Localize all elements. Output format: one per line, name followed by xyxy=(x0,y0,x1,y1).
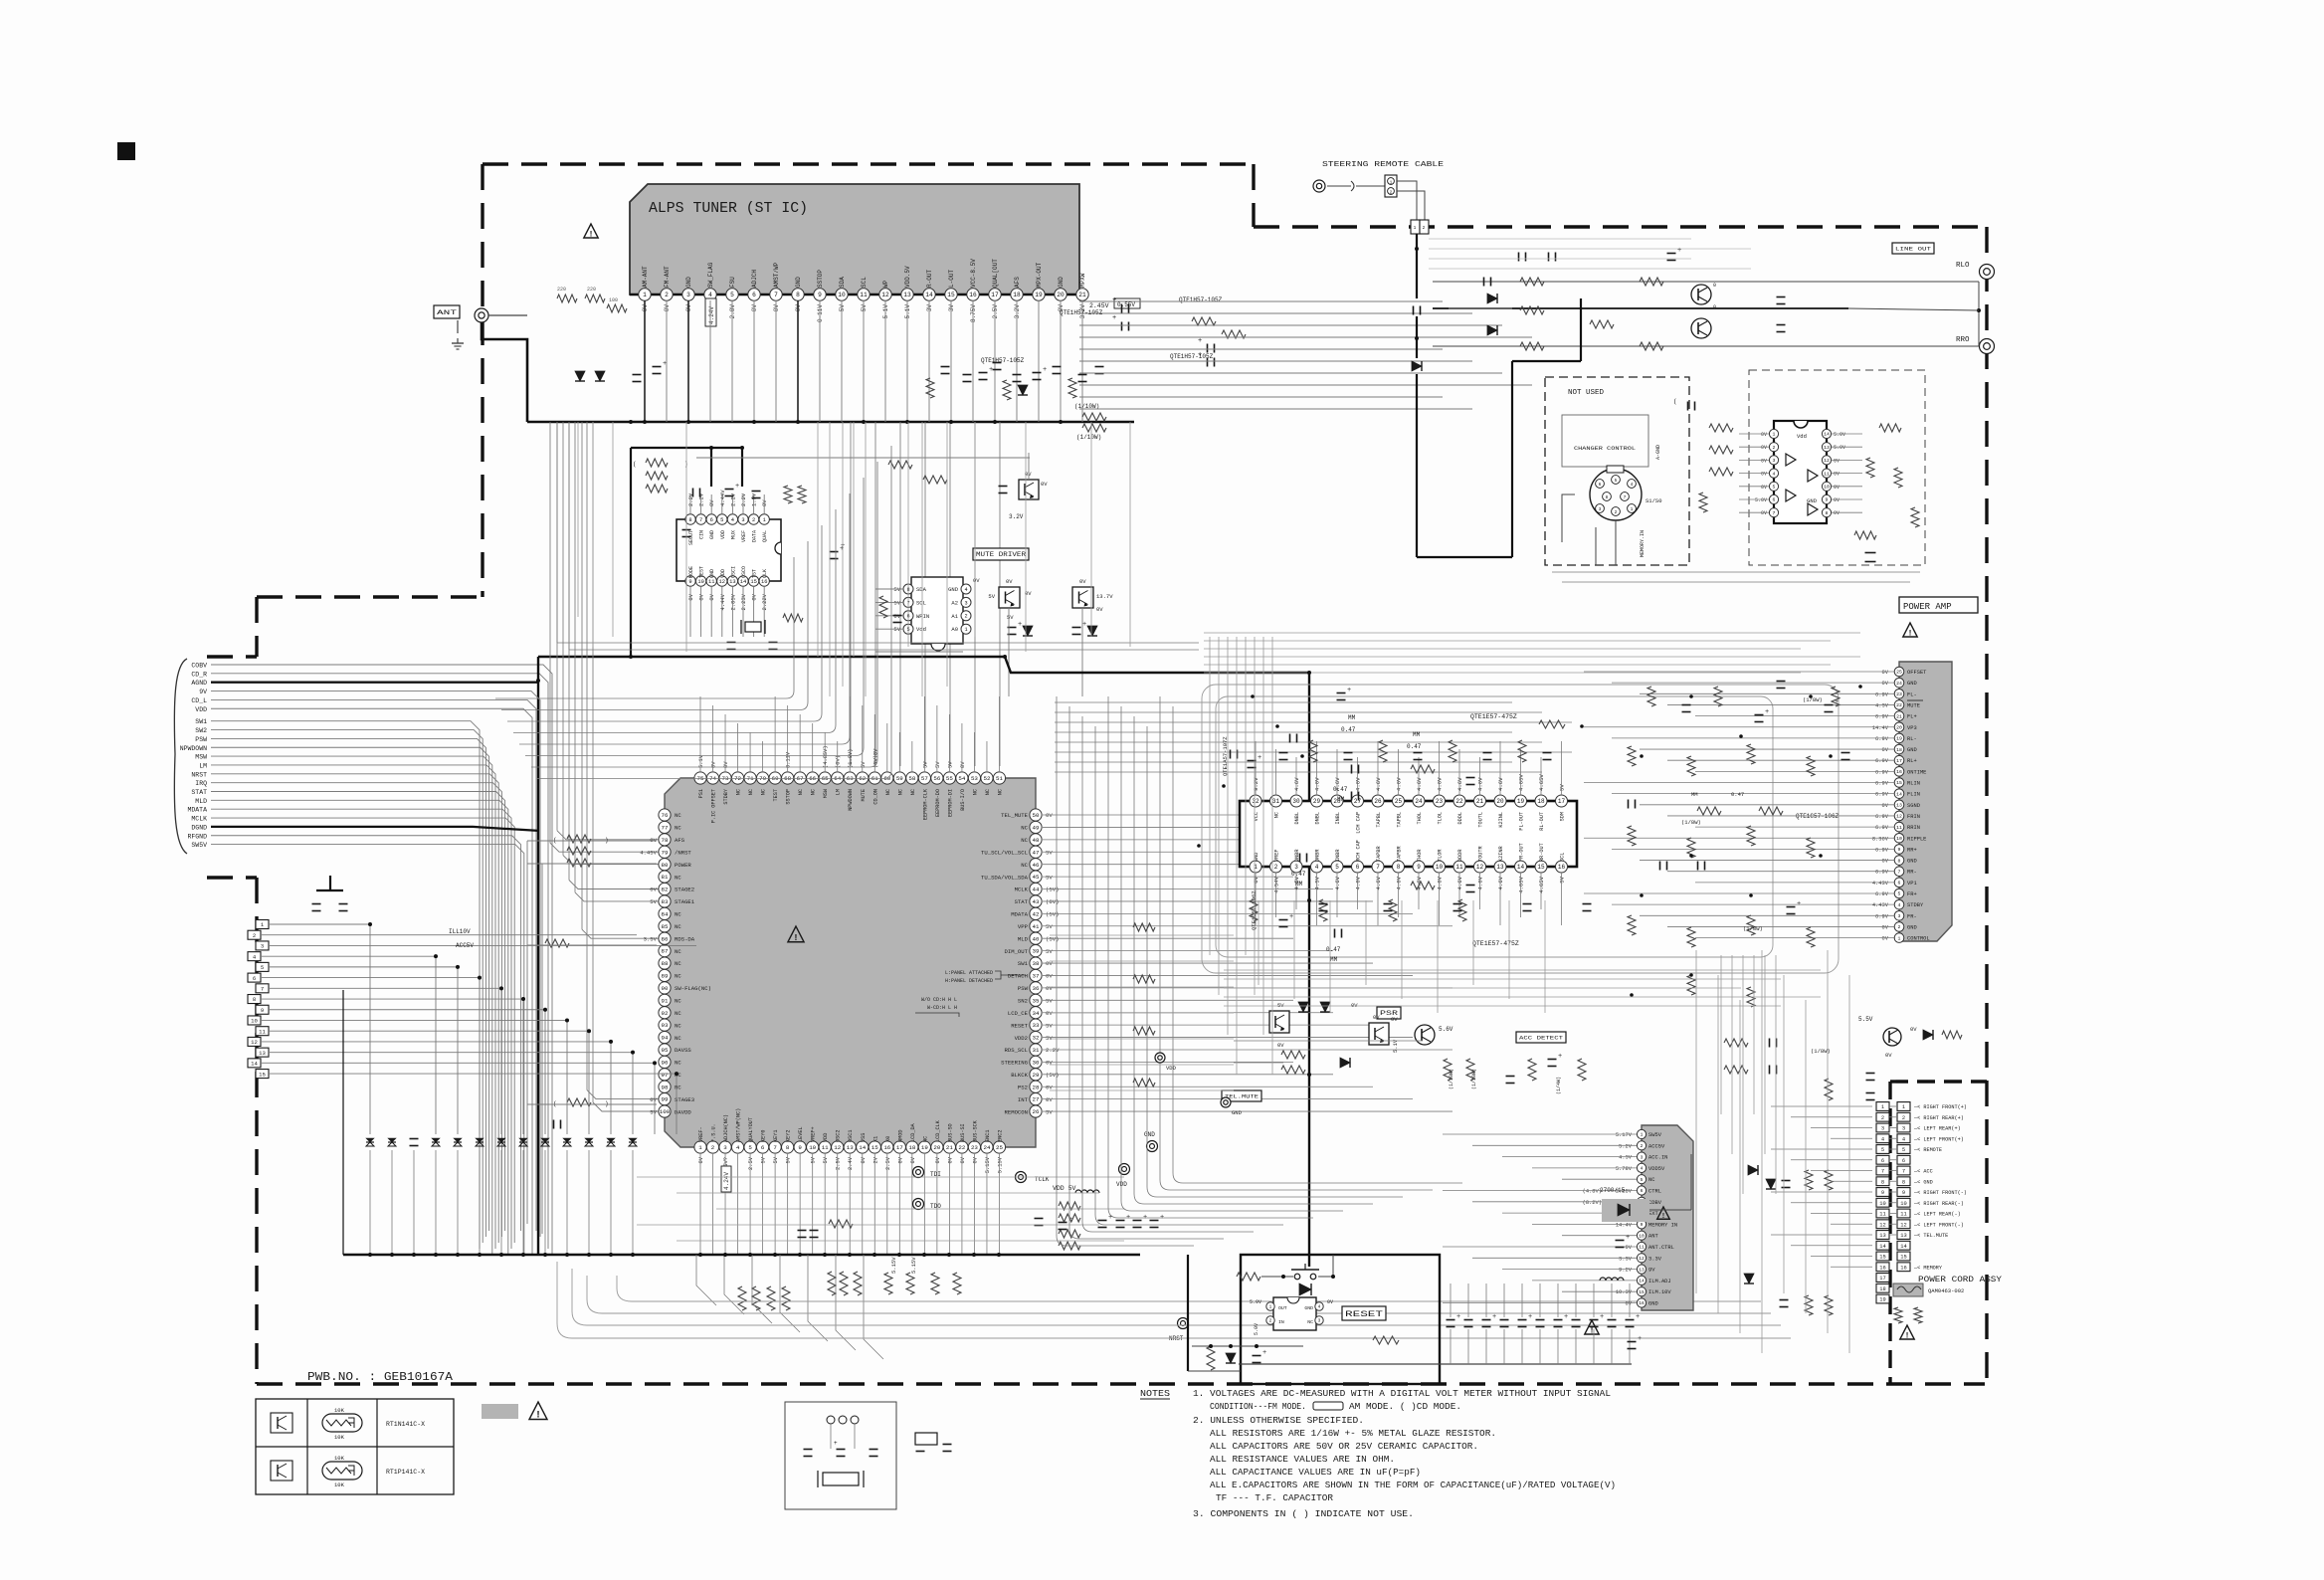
svg-text:23: 23 xyxy=(971,1144,978,1151)
svg-text:K2INL: K2INL xyxy=(1498,812,1504,828)
svg-text:0V: 0V xyxy=(1834,485,1840,491)
svg-text:NC: NC xyxy=(736,789,742,795)
svg-text:2: 2 xyxy=(1423,225,1426,231)
svg-text:RFGND: RFGND xyxy=(187,833,207,840)
svg-text:GND: GND xyxy=(1907,859,1917,865)
svg-text:6: 6 xyxy=(1773,497,1776,503)
svg-text:(8.2V): (8.2V) xyxy=(1583,1200,1602,1206)
svg-text:6: 6 xyxy=(1641,1188,1644,1194)
svg-text:5V: 5V xyxy=(650,898,657,905)
svg-text:5.1V: 5.1V xyxy=(904,304,911,319)
svg-text:13: 13 xyxy=(1900,1233,1906,1239)
svg-text:5V: 5V xyxy=(1046,948,1053,955)
svg-text:QUAL: QUAL xyxy=(762,530,768,542)
svg-text:4.3V: 4.3V xyxy=(1619,1155,1633,1161)
svg-text:NC: NC xyxy=(675,1084,681,1090)
svg-text:TEST: TEST xyxy=(699,566,705,578)
svg-text:+: + xyxy=(1456,1313,1460,1321)
svg-text:14.4V: 14.4V xyxy=(1616,1222,1633,1228)
svg-text:3. COMPONENTS IN ( ) INDICAT: 3. COMPONENTS IN ( ) INDICATE NOT USE. xyxy=(1193,1508,1414,1519)
svg-text:6.9V: 6.9V xyxy=(1875,758,1889,764)
svg-text:5: 5 xyxy=(1335,864,1339,871)
svg-text:SDM: SDM xyxy=(1560,812,1566,821)
svg-text:FSU: FSU xyxy=(729,277,736,288)
svg-text:VDD: VDD xyxy=(720,530,726,539)
svg-text:17: 17 xyxy=(991,292,999,298)
svg-text:VSS: VSS xyxy=(861,1133,867,1142)
svg-text:5V: 5V xyxy=(861,304,868,312)
svg-text:2: 2 xyxy=(1881,1115,1884,1121)
svg-text:2.23V: 2.23V xyxy=(740,593,747,610)
svg-text:(4.85V): (4.85V) xyxy=(823,745,829,768)
svg-text:4: 4 xyxy=(1902,1136,1905,1142)
svg-text:GND: GND xyxy=(709,569,715,578)
svg-text:2: 2 xyxy=(665,292,669,298)
svg-text:25: 25 xyxy=(1896,670,1902,676)
svg-text:15: 15 xyxy=(1896,780,1902,786)
svg-text:5.0V: 5.0V xyxy=(1755,497,1767,503)
svg-text:TAPBL: TAPBL xyxy=(1376,812,1382,828)
svg-text:S1/S0: S1/S0 xyxy=(1646,497,1662,504)
svg-text:10: 10 xyxy=(838,292,846,298)
svg-text:1: 1 xyxy=(1641,1132,1644,1138)
svg-text:+: + xyxy=(1043,366,1047,374)
svg-text:5V: 5V xyxy=(811,1156,817,1163)
svg-text:31: 31 xyxy=(1033,1047,1040,1054)
svg-text:QTE1H57-105Z: QTE1H57-105Z xyxy=(1060,309,1103,316)
svg-text:NC: NC xyxy=(1021,837,1028,844)
svg-text:KEY0: KEY0 xyxy=(761,1130,767,1142)
svg-text:77: 77 xyxy=(662,825,669,832)
svg-text:9: 9 xyxy=(688,579,691,585)
svg-text:CD_L: CD_L xyxy=(191,697,207,704)
svg-text:NC: NC xyxy=(997,789,1003,795)
svg-text:0V: 0V xyxy=(960,761,966,768)
svg-text:22: 22 xyxy=(1455,798,1463,805)
svg-text:A1: A1 xyxy=(951,613,958,620)
svg-text:VCC-8.5V: VCC-8.5V xyxy=(970,259,977,288)
svg-text:A-GND: A-GND xyxy=(1655,445,1661,460)
svg-text:BLKCK: BLKCK xyxy=(1011,1072,1028,1079)
svg-text:2.4V: 2.4V xyxy=(848,1156,854,1170)
svg-text:1: 1 xyxy=(1881,1104,1884,1110)
svg-text:NC: NC xyxy=(675,825,681,832)
svg-text:3: 3 xyxy=(1902,1126,1905,1132)
svg-text:5V: 5V xyxy=(988,593,995,600)
svg-text:NMOD: NMOD xyxy=(897,1130,903,1142)
svg-text:—< LEFT REAR(+): —< LEFT REAR(+) xyxy=(1913,1126,1961,1132)
svg-text:5: 5 xyxy=(720,517,723,523)
svg-text:83: 83 xyxy=(662,898,669,905)
svg-text:4.24V: 4.24V xyxy=(708,306,715,324)
svg-text:0V: 0V xyxy=(1910,1026,1917,1033)
svg-text:14: 14 xyxy=(1639,1279,1645,1284)
svg-text:35: 35 xyxy=(1033,997,1040,1004)
svg-text:/NRST: /NRST xyxy=(675,849,691,856)
svg-text:PSW: PSW xyxy=(195,736,207,743)
svg-text:RL+: RL+ xyxy=(1907,758,1917,764)
svg-text:76: 76 xyxy=(662,812,669,819)
svg-text:STDBY: STDBY xyxy=(1907,902,1924,908)
svg-text:+: + xyxy=(1112,296,1116,304)
svg-text:MM: MM xyxy=(1691,791,1698,798)
svg-text:10K: 10K xyxy=(334,1434,345,1441)
svg-text:+: + xyxy=(1082,621,1086,629)
svg-text:0V: 0V xyxy=(773,304,780,312)
svg-text:4.6V: 4.6V xyxy=(1416,777,1423,791)
svg-text:NRST: NRST xyxy=(1169,1335,1184,1342)
svg-text:INBR: INBR xyxy=(1335,850,1341,862)
svg-text:10K: 10K xyxy=(334,1407,345,1414)
svg-text:MLD: MLD xyxy=(195,798,207,805)
svg-text:SW_FLAG: SW_FLAG xyxy=(707,262,714,288)
svg-text:VDD.5V: VDD.5V xyxy=(904,266,911,288)
svg-text:5: 5 xyxy=(1615,478,1618,484)
svg-text:K2INR: K2INR xyxy=(1498,846,1504,862)
svg-text:2.2V: 2.2V xyxy=(729,493,736,506)
svg-text:4.3V: 4.3V xyxy=(1875,702,1889,708)
svg-text:1: 1 xyxy=(698,1144,702,1151)
svg-text:4.6V: 4.6V xyxy=(1334,876,1341,889)
svg-text:MSW: MSW xyxy=(823,788,829,798)
svg-text:WP: WP xyxy=(882,280,889,288)
svg-text:7: 7 xyxy=(1376,864,1380,871)
svg-text:PS2: PS2 xyxy=(1018,1084,1028,1090)
svg-text:23: 23 xyxy=(1436,798,1444,805)
svg-text:3.3V: 3.3V xyxy=(1619,1256,1633,1262)
svg-text:QTE1H57-105Z: QTE1H57-105Z xyxy=(1179,296,1223,303)
svg-text:TST: TST xyxy=(752,569,758,578)
svg-text:DNBR: DNBR xyxy=(1315,850,1321,862)
svg-text:5.1V: 5.1V xyxy=(698,754,704,768)
svg-text:PWB.NO. : GEB10167A: PWB.NO. : GEB10167A xyxy=(307,1371,453,1384)
svg-text:25: 25 xyxy=(996,1144,1003,1151)
svg-text:0V: 0V xyxy=(1626,1245,1633,1251)
svg-text:THOR: THOR xyxy=(1417,850,1423,862)
svg-text:OSCO: OSCO xyxy=(741,566,747,578)
svg-text:8: 8 xyxy=(253,996,256,1003)
svg-text:10: 10 xyxy=(697,579,703,585)
svg-text:4.44V: 4.44V xyxy=(719,490,726,506)
svg-text:1: 1 xyxy=(643,292,647,298)
svg-text:CLK: CLK xyxy=(762,569,768,578)
svg-text:21: 21 xyxy=(1476,798,1484,805)
svg-text:3: 3 xyxy=(1898,913,1901,919)
svg-text:—< ACC: —< ACC xyxy=(1913,1169,1933,1175)
svg-text:AM MODE. ( )CD MODE.: AM MODE. ( )CD MODE. xyxy=(1349,1401,1461,1412)
svg-text:5V: 5V xyxy=(823,1156,829,1163)
svg-text:8.75V: 8.75V xyxy=(970,304,977,322)
svg-text:11: 11 xyxy=(708,579,714,585)
svg-text:0V: 0V xyxy=(1882,924,1889,930)
svg-text:9: 9 xyxy=(1826,497,1829,503)
svg-text:220: 220 xyxy=(557,287,566,293)
svg-text:5V: 5V xyxy=(1046,849,1053,856)
svg-text:85: 85 xyxy=(662,923,669,930)
svg-text:TF --- T.F. CAPACITOR: TF --- T.F. CAPACITOR xyxy=(1216,1492,1333,1503)
svg-text:5.15V: 5.15V xyxy=(997,1156,1003,1173)
svg-text:ALL RESISTANCE VALUES ARE IN O: ALL RESISTANCE VALUES ARE IN OHM. xyxy=(1210,1454,1395,1465)
svg-text:RLO: RLO xyxy=(1956,262,1970,270)
svg-text:7: 7 xyxy=(773,1144,777,1151)
svg-text:40: 40 xyxy=(1033,935,1040,942)
svg-text:97: 97 xyxy=(662,1072,669,1079)
svg-text:18: 18 xyxy=(908,1144,915,1151)
svg-text:DAVSS: DAVSS xyxy=(675,1047,691,1054)
svg-text:+: + xyxy=(1600,1313,1604,1321)
svg-text:0V: 0V xyxy=(1834,458,1840,464)
svg-text:ACC5V: ACC5V xyxy=(456,942,474,949)
svg-text:ACC.IN: ACC.IN xyxy=(1648,1155,1667,1161)
svg-text:5: 5 xyxy=(261,964,264,971)
svg-text:16: 16 xyxy=(1558,864,1566,871)
svg-text:RESET: RESET xyxy=(1345,1310,1383,1319)
svg-text:X0: X0 xyxy=(885,1136,891,1142)
svg-text:QTE1C57-106Z: QTE1C57-106Z xyxy=(1796,813,1840,820)
svg-text:15: 15 xyxy=(1900,1255,1906,1261)
svg-text:6.9V: 6.9V xyxy=(1875,825,1889,831)
svg-text:9: 9 xyxy=(1898,847,1901,853)
svg-text:11: 11 xyxy=(259,1028,266,1035)
svg-text:NC: NC xyxy=(1274,812,1280,818)
svg-text:0: 0 xyxy=(1713,283,1716,289)
svg-text:LM: LM xyxy=(836,789,842,795)
svg-text:7: 7 xyxy=(1898,869,1901,875)
svg-text:ALPS TUNER (ST IC): ALPS TUNER (ST IC) xyxy=(649,200,808,217)
svg-text:OSCI: OSCI xyxy=(730,566,736,578)
svg-text:—< REMOTE: —< REMOTE xyxy=(1913,1147,1942,1153)
svg-text:3: 3 xyxy=(964,600,967,606)
svg-text:9: 9 xyxy=(1417,864,1421,871)
svg-text:13: 13 xyxy=(1639,1267,1645,1273)
svg-text:9.2V: 9.2V xyxy=(1253,777,1259,791)
svg-text:0V: 0V xyxy=(1046,1084,1053,1090)
svg-text:0V: 0V xyxy=(650,887,657,893)
svg-text:58: 58 xyxy=(908,775,915,782)
svg-text:5.5V: 5.5V xyxy=(1858,1016,1873,1023)
svg-text:ENC1: ENC1 xyxy=(985,1130,991,1142)
svg-text:6.9V: 6.9V xyxy=(1875,781,1889,787)
svg-text:POWER CORD ASSY: POWER CORD ASSY xyxy=(1918,1275,2002,1284)
svg-text:27: 27 xyxy=(1033,1096,1040,1103)
svg-text:RIPPLE: RIPPLE xyxy=(1907,836,1926,842)
svg-text:5V: 5V xyxy=(1046,874,1053,881)
svg-text:46: 46 xyxy=(1033,862,1040,869)
svg-text:SW1: SW1 xyxy=(1018,960,1029,967)
svg-text:FR+: FR+ xyxy=(1907,891,1917,897)
svg-text:6.9V: 6.9V xyxy=(1875,736,1889,742)
svg-text:ALL CAPACITANCE VALUES ARE IN: ALL CAPACITANCE VALUES ARE IN uF(P=pF) xyxy=(1210,1467,1421,1478)
svg-text:7: 7 xyxy=(699,517,702,523)
svg-text:(0V): (0V) xyxy=(836,755,842,768)
svg-text:13: 13 xyxy=(1896,803,1902,809)
svg-text:THOL: THOL xyxy=(1417,812,1423,824)
svg-text:13: 13 xyxy=(1824,445,1830,451)
svg-text:8: 8 xyxy=(796,292,800,298)
svg-text:DNBL: DNBL xyxy=(1315,812,1321,824)
svg-text:TU_SCL/VOL_SCL: TU_SCL/VOL_SCL xyxy=(981,849,1028,856)
svg-text:NPWDOWN: NPWDOWN xyxy=(848,789,854,811)
svg-text:Vdd: Vdd xyxy=(916,626,926,633)
svg-text:(5V): (5V) xyxy=(1046,1072,1059,1079)
svg-text:ALL E.CAPACITORS ARE SHOWN IN: ALL E.CAPACITORS ARE SHOWN IN THE FORM O… xyxy=(1210,1480,1616,1490)
svg-text:16: 16 xyxy=(969,292,977,298)
svg-text:5V: 5V xyxy=(1046,1022,1053,1029)
svg-text:11: 11 xyxy=(1896,825,1902,831)
svg-text:0V: 0V xyxy=(1761,510,1767,516)
svg-text:7: 7 xyxy=(261,986,264,993)
svg-text:+: + xyxy=(1289,913,1293,921)
svg-text:1: 1 xyxy=(1773,432,1776,438)
svg-text:2.5V: 2.5V xyxy=(836,1156,842,1170)
svg-text:2700/15: 2700/15 xyxy=(1600,1187,1626,1194)
svg-text:17: 17 xyxy=(1896,758,1902,764)
svg-text:4.6V: 4.6V xyxy=(1375,777,1382,791)
svg-text:7: 7 xyxy=(1881,1169,1884,1175)
svg-text:0V: 0V xyxy=(751,593,758,600)
svg-text:55: 55 xyxy=(946,775,953,782)
svg-text:MODE: MODE xyxy=(688,566,694,578)
svg-text:GND: GND xyxy=(948,586,959,593)
svg-text:0V: 0V xyxy=(1834,510,1840,516)
svg-text:CD_ON: CD_ON xyxy=(872,789,878,805)
svg-text:2: 2 xyxy=(711,1144,715,1151)
svg-text:NC: NC xyxy=(675,948,681,955)
svg-text:NOTES: NOTES xyxy=(1140,1388,1170,1399)
svg-text:0V: 0V xyxy=(973,577,980,584)
svg-text:MUTE: MUTE xyxy=(1907,702,1920,708)
svg-text:LINE OUT: LINE OUT xyxy=(1895,245,1932,252)
svg-text:OUT: OUT xyxy=(1278,1305,1287,1311)
svg-text:NPWDOWN: NPWDOWN xyxy=(180,745,207,752)
svg-text:26: 26 xyxy=(1374,798,1382,805)
svg-text:20: 20 xyxy=(1496,798,1504,805)
svg-text:ENC2: ENC2 xyxy=(997,1130,1003,1142)
svg-text:9: 9 xyxy=(261,1007,264,1014)
svg-text:NC: NC xyxy=(675,960,681,967)
svg-text:0: 0 xyxy=(1713,304,1716,310)
svg-text:14.4V: 14.4V xyxy=(1872,725,1889,731)
svg-text:DAVDD: DAVDD xyxy=(675,1108,691,1115)
svg-text:NC: NC xyxy=(922,1136,928,1142)
svg-text:REMOCON: REMOCON xyxy=(1005,1108,1029,1115)
svg-text:0V: 0V xyxy=(1761,485,1767,491)
svg-text:TOUTR: TOUTR xyxy=(1478,846,1484,862)
svg-text:42: 42 xyxy=(1033,910,1040,917)
svg-text:5V: 5V xyxy=(1277,1002,1284,1009)
svg-text:3V: 3V xyxy=(948,304,955,312)
svg-text:OSC2: OSC2 xyxy=(836,1130,842,1142)
svg-text:0.11V: 0.11V xyxy=(786,751,792,768)
svg-text:5.0V: 5.0V xyxy=(1254,1323,1259,1335)
svg-text:15: 15 xyxy=(1537,864,1545,871)
svg-text:8: 8 xyxy=(688,517,691,523)
svg-text:NC: NC xyxy=(897,789,903,795)
svg-text:4.6V: 4.6V xyxy=(1437,876,1444,889)
svg-text:+: + xyxy=(1262,1349,1266,1357)
svg-text:84: 84 xyxy=(662,910,669,917)
svg-text:NC: NC xyxy=(798,789,804,795)
svg-text:+: + xyxy=(1198,337,1202,345)
svg-text:11: 11 xyxy=(822,1144,829,1151)
svg-text:VREF: VREF xyxy=(1274,850,1280,862)
svg-text:AMST/WP(NC): AMST/WP(NC) xyxy=(736,1108,742,1142)
svg-text:8: 8 xyxy=(1902,1179,1905,1185)
svg-text:KEY2: KEY2 xyxy=(786,1130,792,1142)
svg-text:11: 11 xyxy=(1824,471,1830,477)
svg-text:12: 12 xyxy=(881,292,889,298)
svg-text:LCD_DA: LCD_DA xyxy=(910,1122,916,1142)
svg-text:1: 1 xyxy=(1390,180,1393,186)
svg-text:6.9V: 6.9V xyxy=(1875,792,1889,798)
svg-text:4: 4 xyxy=(964,587,967,593)
svg-text:5V: 5V xyxy=(773,1156,779,1163)
svg-text:0.55V: 0.55V xyxy=(1117,301,1135,308)
svg-text:2.45V: 2.45V xyxy=(1089,302,1109,309)
svg-text:14: 14 xyxy=(1896,791,1902,797)
svg-text:VDD5V: VDD5V xyxy=(1648,1166,1665,1172)
svg-text:79: 79 xyxy=(662,849,669,856)
svg-text:SSTOP: SSTOP xyxy=(786,789,792,805)
svg-text:SDA: SDA xyxy=(916,586,927,593)
svg-text:NC: NC xyxy=(761,789,767,795)
svg-text:10: 10 xyxy=(1639,1233,1645,1239)
svg-text:NOT USED: NOT USED xyxy=(1568,389,1605,397)
svg-text:SCL: SCL xyxy=(1560,853,1566,862)
svg-text:SCL: SCL xyxy=(861,277,868,288)
svg-text:SGND: SGND xyxy=(1907,803,1920,809)
svg-text:2: 2 xyxy=(1898,924,1901,930)
svg-text:15: 15 xyxy=(947,292,955,298)
svg-text:6: 6 xyxy=(752,292,756,298)
svg-text:QTE1E57-475Z: QTE1E57-475Z xyxy=(1472,940,1519,947)
svg-text:5.6V: 5.6V xyxy=(1439,1026,1453,1033)
svg-text:5.17V: 5.17V xyxy=(1616,1132,1633,1138)
svg-text:NC: NC xyxy=(972,789,978,795)
svg-text:15: 15 xyxy=(871,1144,878,1151)
svg-text:GND: GND xyxy=(1232,1109,1243,1116)
svg-text:4: 4 xyxy=(1641,1166,1644,1172)
svg-text:0V: 0V xyxy=(1351,1002,1358,1009)
svg-text:+: + xyxy=(1677,247,1681,255)
svg-text:12: 12 xyxy=(251,1039,258,1046)
svg-text:RT1P141C-X: RT1P141C-X xyxy=(386,1469,425,1476)
svg-text:0V: 0V xyxy=(1761,445,1767,451)
svg-text:10: 10 xyxy=(1436,864,1444,871)
svg-text:2.05V: 2.05V xyxy=(729,593,736,610)
svg-text:VDD: VDD xyxy=(1166,1065,1177,1072)
svg-text:EXT: EXT xyxy=(1648,1211,1658,1217)
svg-text:QUAL[OUT: QUAL[OUT xyxy=(992,259,999,288)
svg-text:(1/10W): (1/10W) xyxy=(1449,1069,1454,1089)
svg-text:19: 19 xyxy=(1517,798,1525,805)
svg-text:0V: 0V xyxy=(664,304,671,312)
svg-text:16: 16 xyxy=(1879,1265,1885,1271)
svg-text:4: 4 xyxy=(1773,471,1776,477)
svg-text:4.6V: 4.6V xyxy=(1293,777,1300,791)
svg-text:17: 17 xyxy=(1879,1276,1885,1282)
svg-text:15: 15 xyxy=(1639,1289,1645,1295)
svg-text:NC: NC xyxy=(675,1022,681,1029)
svg-text:MEMORY IN: MEMORY IN xyxy=(1648,1222,1677,1228)
svg-text:16: 16 xyxy=(761,579,767,585)
svg-text:5V: 5V xyxy=(786,1156,792,1163)
svg-text:13.7V: 13.7V xyxy=(1096,593,1113,600)
svg-text:19: 19 xyxy=(921,1144,928,1151)
svg-text:NC: NC xyxy=(985,789,991,795)
svg-text:5.0V: 5.0V xyxy=(1834,445,1845,451)
svg-text:2.5V: 2.5V xyxy=(748,1156,754,1170)
